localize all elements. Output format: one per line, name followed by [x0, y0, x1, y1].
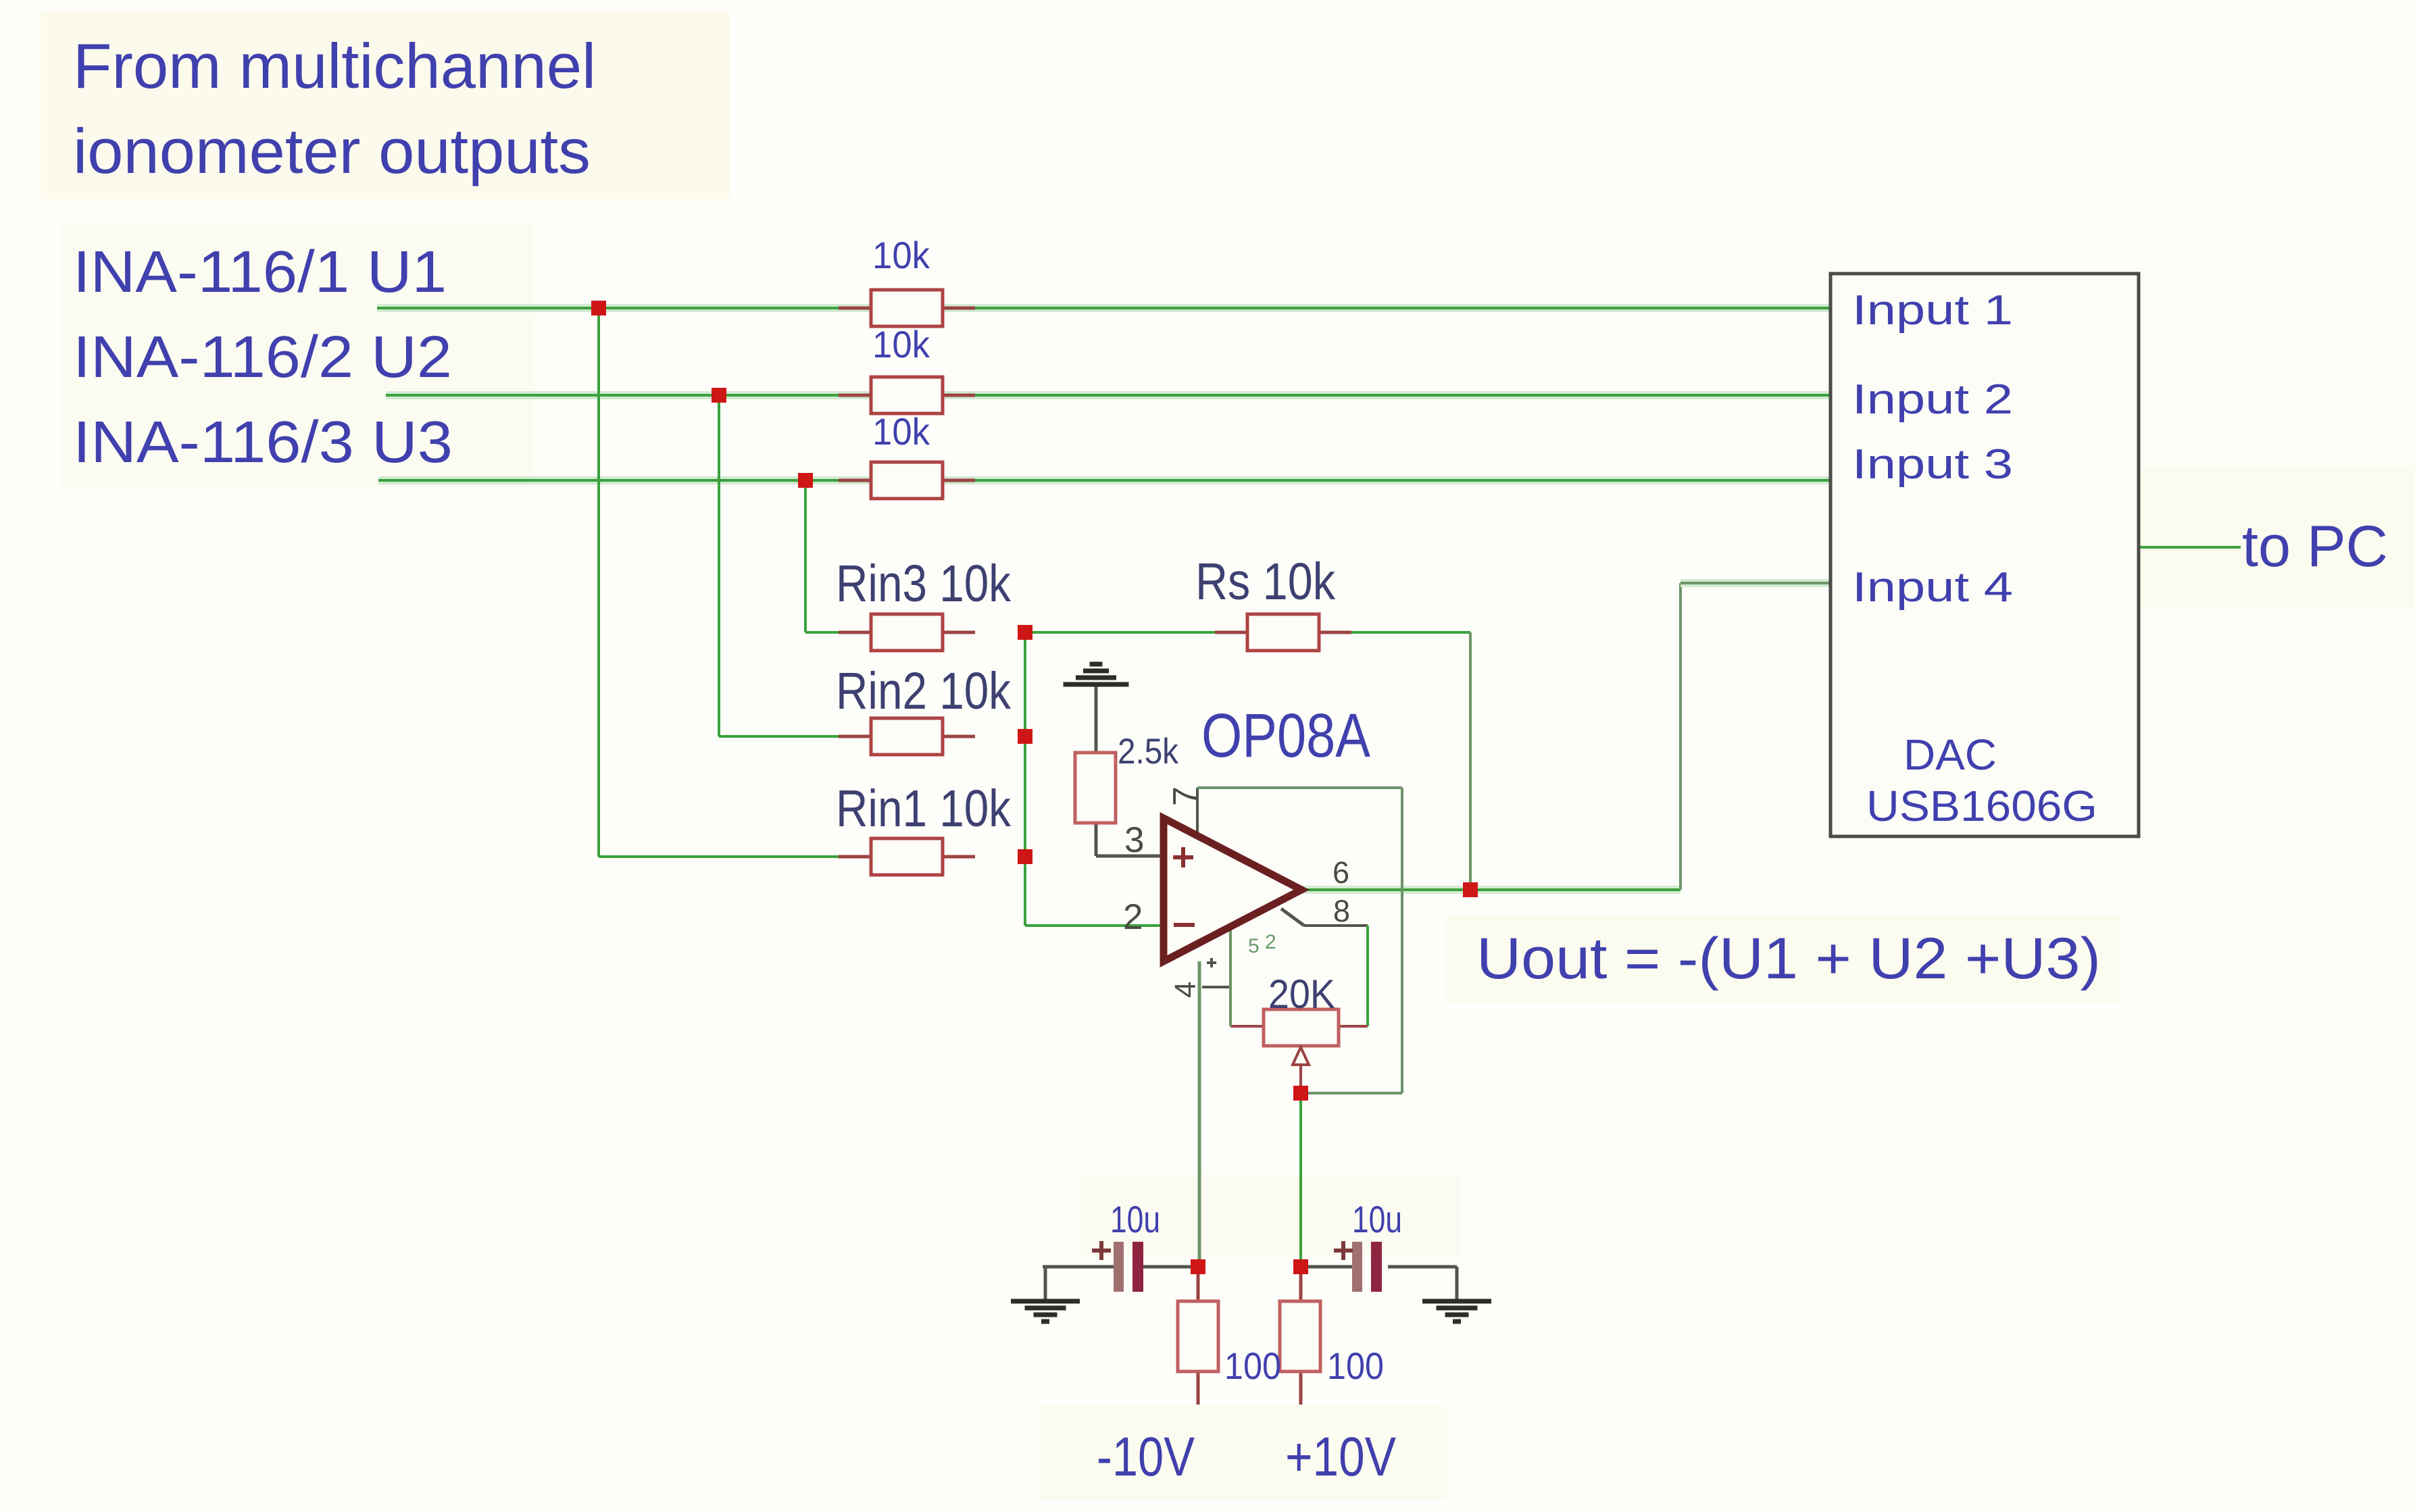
svg-text:2: 2	[1123, 897, 1143, 937]
svg-text:Rin3 10k: Rin3 10k	[836, 555, 1011, 613]
svg-text:Rs 10k: Rs 10k	[1195, 553, 1335, 611]
svg-text:+10V: +10V	[1285, 1426, 1396, 1488]
svg-text:INA-116/3 U3: INA-116/3 U3	[73, 409, 453, 475]
svg-text:Rin1 10k: Rin1 10k	[836, 780, 1011, 838]
svg-text:Input 1: Input 1	[1852, 287, 2013, 334]
svg-text:10k: 10k	[872, 234, 930, 276]
svg-text:7: 7	[1166, 786, 1205, 806]
svg-text:2: 2	[1265, 931, 1276, 953]
svg-text:Input 2: Input 2	[1852, 376, 2013, 423]
svg-text:6: 6	[1333, 855, 1349, 890]
svg-text:100: 100	[1224, 1344, 1281, 1387]
svg-text:-10V: -10V	[1097, 1426, 1195, 1488]
svg-text:10k: 10k	[872, 410, 930, 453]
svg-text:8: 8	[1333, 894, 1350, 928]
svg-text:3: 3	[1124, 820, 1144, 860]
svg-text:Uout = -(U1 + U2 +U3): Uout = -(U1 + U2 +U3)	[1476, 926, 2101, 991]
svg-text:20K: 20K	[1268, 972, 1335, 1017]
svg-text:From multichannel: From multichannel	[73, 30, 596, 101]
svg-text:Input 3: Input 3	[1852, 441, 2013, 488]
svg-text:5: 5	[1248, 935, 1260, 957]
svg-text:100: 100	[1327, 1344, 1384, 1387]
svg-text:DAC: DAC	[1903, 730, 1997, 779]
svg-text:to PC: to PC	[2242, 514, 2388, 579]
svg-text:10u: 10u	[1352, 1198, 1402, 1240]
svg-text:2.5k: 2.5k	[1118, 732, 1178, 772]
svg-text:ionometer outputs: ionometer outputs	[73, 116, 591, 186]
svg-text:10u: 10u	[1110, 1198, 1160, 1240]
svg-text:INA-116/1 U1: INA-116/1 U1	[73, 239, 447, 305]
svg-text:10k: 10k	[872, 323, 930, 366]
svg-text:Input 4: Input 4	[1852, 564, 2013, 611]
svg-text:4: 4	[1169, 982, 1202, 998]
svg-text:OP08A: OP08A	[1201, 701, 1371, 770]
svg-text:Rin2 10k: Rin2 10k	[836, 662, 1011, 720]
svg-text:INA-116/2 U2: INA-116/2 U2	[73, 324, 452, 390]
svg-text:USB1606G: USB1606G	[1866, 782, 2097, 830]
